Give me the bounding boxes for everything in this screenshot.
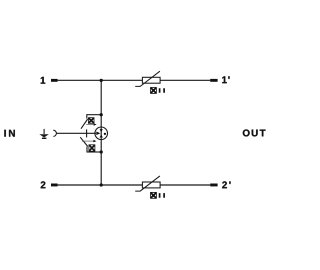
terminal mark 1' (210, 79, 217, 82)
junction node upper branch / bus (100, 113, 103, 116)
upper disconnect indicator box (88, 118, 94, 124)
upper disconnect actuation arrow (86, 123, 96, 126)
varistor R2 body (142, 182, 160, 188)
varistor R1 status indicator box (151, 88, 157, 94)
varistor R2 status indicator ticks (160, 193, 165, 198)
terminal mark 2 (51, 184, 58, 187)
gas discharge tube gas-filled dot (104, 133, 106, 135)
wire lower disconnect corner stub (86, 146, 88, 152)
switch blade upper disconnect (81, 119, 88, 129)
wire bottom line left segment (58, 184, 143, 186)
label terminal 2 (41, 181, 46, 188)
wire upper disconnect corner stub (86, 114, 88, 118)
gas discharge tube U1 circle (95, 127, 108, 140)
gas discharge tube bottom electrode arrowhead (100, 134, 103, 137)
junction node lower branch / bus (100, 150, 103, 153)
contact tick on IN line (86, 129, 88, 137)
wire upper disconnect branch horizontal (87, 114, 101, 116)
lower disconnect indicator box (89, 145, 95, 151)
label IN (4, 130, 14, 137)
label terminal 1 (41, 77, 46, 84)
terminal mark 1 (51, 79, 58, 82)
ground symbol (39, 129, 48, 138)
wire top line right segment (160, 79, 210, 81)
wire bottom line right segment (160, 184, 210, 186)
varistor R2 diagonal stroke (135, 176, 160, 191)
terminal mark 2' (210, 184, 217, 187)
junction node top line / bus (100, 79, 103, 82)
varistor R2 status indicator box (151, 192, 157, 198)
wire lower disconnect branch horizontal (87, 151, 101, 153)
wire center bus vertical (100, 80, 102, 185)
lower disconnect actuation arrow (82, 140, 97, 143)
gas discharge tube top electrode arrowhead (100, 129, 103, 132)
label terminal 2' (222, 181, 230, 188)
gas discharge tube left electrode arrowhead (96, 132, 100, 136)
varistor R1 status indicator ticks (160, 88, 165, 93)
plug connector arc (53, 130, 56, 136)
label OUT (243, 129, 266, 136)
switch blade lower disconnect (80, 137, 88, 146)
junction node bottom line / bus (100, 183, 103, 186)
wire top line left segment (58, 79, 143, 81)
label terminal 1' (222, 76, 229, 83)
varistor R1 body (142, 77, 160, 83)
wire IN center horizontal (57, 132, 97, 134)
varistor R1 diagonal stroke (135, 71, 160, 86)
